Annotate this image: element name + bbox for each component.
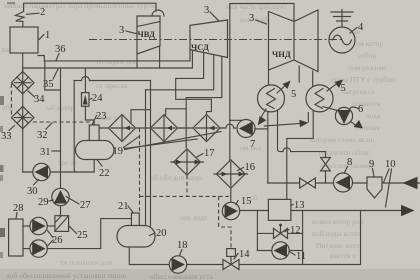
svg-text:28: 28	[13, 203, 24, 214]
heater 5b steam arrow out	[327, 82, 339, 91]
LP heater 19c	[193, 115, 220, 142]
heater 5a drain to header	[278, 110, 284, 151]
feed line through heaters	[22, 53, 24, 172]
drain pump 18	[169, 256, 186, 273]
filter 25	[47, 225, 55, 227]
generator exciter bars	[331, 10, 353, 28]
feedwater heater 34	[11, 72, 34, 94]
make-up water line y=183	[268, 182, 420, 184]
cross water line 5a-5b	[265, 124, 301, 127]
svg-text:27: 27	[80, 200, 91, 211]
svg-text:пй обл доп воды: пй обл доп воды	[150, 173, 202, 182]
svg-text:ном режиме: ном режиме	[348, 63, 387, 72]
drain tank 20	[117, 226, 155, 248]
svg-text:вода: вода	[366, 111, 381, 120]
svg-text:ной воды котло: ной воды котло	[312, 229, 361, 238]
svg-text:ЧСД: ЧСД	[191, 42, 209, 52]
feedwater heater 33	[11, 106, 34, 128]
svg-text:7: 7	[250, 139, 255, 150]
deaerator head 23	[89, 125, 99, 142]
svg-text:2: 2	[40, 7, 45, 18]
HP turbine ЧВД 3	[137, 16, 160, 54]
svg-text:3: 3	[249, 13, 254, 24]
pump 29 riser	[52, 188, 69, 205]
svg-text:33: 33	[1, 131, 12, 142]
condensate main line y=128	[99, 127, 226, 129]
pipe 24 to deaerator head	[85, 106, 94, 125]
boiler 1	[10, 27, 38, 53]
svg-text:12: 12	[290, 225, 301, 236]
svg-text:16: 16	[245, 162, 256, 173]
IP extraction 4 to heater 17 and 19b	[186, 57, 222, 148]
generator 4	[329, 27, 355, 53]
left margin scan marks	[0, 96, 4, 105]
svg-text:11: 11	[296, 251, 306, 262]
dashed drain header	[139, 128, 141, 213]
svg-text:5: 5	[291, 89, 296, 100]
svg-text:36: 36	[55, 44, 66, 55]
reducing valve 24 feed	[84, 68, 86, 93]
valve on make-up line	[300, 178, 316, 188]
extraction line with hop to tank 20	[74, 80, 81, 82]
crossover pipe IP to LP, continuing down to heater 16	[230, 4, 294, 161]
shaft dash-dot line	[89, 39, 342, 41]
heater 5a water arrow	[262, 109, 267, 117]
pump 26b discharge to tank inlet 21	[47, 219, 131, 249]
vertical valve on drain	[325, 152, 327, 158]
condensate pump 26a	[23, 225, 30, 227]
bottom drain line	[187, 264, 223, 266]
svg-text:4: 4	[358, 22, 364, 33]
deaerator tank 22	[76, 141, 115, 160]
svg-text:3: 3	[204, 5, 209, 16]
svg-text:23: 23	[96, 111, 107, 122]
svg-text:ЧНД: ЧНД	[272, 49, 291, 59]
riser 61 to deaerator pump line	[60, 68, 62, 216]
svg-text:20: 20	[156, 228, 167, 239]
reducing valve 24	[82, 93, 90, 107]
svg-text:3: 3	[119, 25, 124, 36]
line 35: exhaust header to heater 34	[23, 50, 193, 71]
svg-text:5: 5	[341, 83, 346, 94]
svg-text:30: 30	[27, 186, 38, 197]
heater 5a drain to make-up line	[267, 112, 269, 183]
network pump 6	[323, 107, 338, 111]
svg-text:21: 21	[118, 201, 129, 212]
svg-text:Питание котл: Питание котл	[316, 241, 359, 250]
dashed drain 32 to deaerator	[33, 122, 89, 125]
pipe hump at HP inlet	[152, 10, 164, 16]
short link from reheat line	[45, 61, 60, 90]
svg-text:22: 22	[99, 168, 110, 179]
svg-text:32: 32	[37, 130, 48, 141]
main make-up line to the right	[291, 210, 402, 212]
svg-text:ние водт: ние водт	[180, 213, 208, 222]
svg-text:15: 15	[241, 196, 252, 207]
IP extraction 2 to heater 19c	[176, 53, 212, 115]
valve 12 branch	[257, 232, 302, 234]
svg-text:31: 31	[40, 147, 51, 158]
svg-text:34: 34	[34, 94, 45, 105]
pump 6 outlet arrow	[351, 122, 357, 126]
svg-text:ти парам доп: ти парам доп	[96, 57, 138, 66]
IP extraction to pump 7	[230, 119, 242, 121]
svg-text:новки котор раб: новки котор раб	[312, 217, 363, 226]
feed pump 30	[33, 163, 50, 180]
svg-text:ти повышен доп: ти повышен доп	[60, 258, 112, 267]
drain header with hop	[283, 148, 291, 152]
network heater 5a	[268, 70, 270, 85]
svg-text:нагрева се: нагрева се	[342, 87, 376, 96]
svg-text:26: 26	[52, 235, 63, 246]
LP turbine ЧНД 3	[269, 10, 319, 72]
svg-text:отбор: отбор	[358, 51, 376, 60]
bottom shading band	[0, 269, 420, 280]
svg-text:подается: подается	[352, 99, 381, 108]
pump 8	[334, 173, 353, 192]
cooler box 13	[268, 199, 291, 220]
heater 17	[174, 149, 201, 175]
funnel 9	[367, 177, 382, 198]
heater 5a steam arrow out	[277, 83, 288, 93]
pump 11 branch	[257, 250, 302, 252]
svg-text:вается в: вается в	[330, 251, 356, 260]
svg-text:ос просхв: ос просхв	[96, 81, 128, 90]
heater 17 drain dashed	[186, 175, 188, 196]
condenser box 28	[9, 219, 23, 256]
condensate pump 7	[237, 120, 255, 138]
main steam line from boiler to HP turbine	[24, 3, 156, 11]
LP heater 19a	[109, 115, 136, 142]
svg-text:17: 17	[204, 148, 215, 159]
heater 5b drain to box 13	[287, 110, 313, 199]
drain tank inlet 21	[131, 213, 139, 227]
recirculation loop verticals	[256, 211, 258, 251]
svg-text:ЧВД: ЧВД	[138, 29, 156, 39]
drain dashed between 34 and 33	[10, 84, 12, 116]
svg-text:25: 25	[77, 230, 88, 241]
pump 15 discharge to box 13	[240, 210, 269, 212]
network heater 5b	[312, 71, 314, 88]
pump 30 suction/discharge line	[23, 171, 95, 173]
heater 16 to pump 15	[230, 188, 232, 202]
control valve 14	[223, 260, 239, 270]
svg-text:ваниых параметрах пара промышл: ваниых параметрах пара промышленные турб…	[4, 1, 155, 10]
svg-text:29: 29	[38, 197, 49, 208]
svg-text:14: 14	[239, 249, 250, 260]
top-left scan mark	[7, 2, 15, 4]
riser 74	[74, 81, 76, 173]
LP heater 19b	[151, 115, 178, 142]
tank 20 outlet to pump 18	[129, 247, 169, 265]
safety valve zigzag 2	[15, 11, 24, 27]
HP exhaust drop (right)	[159, 46, 161, 68]
heater 16	[216, 160, 245, 188]
HP exhaust drop (left)	[136, 54, 138, 68]
bottom line to right riser	[239, 211, 361, 265]
condensate pump 26b	[23, 248, 30, 250]
svg-text:вв: вв	[2, 45, 10, 54]
IP turbine ЧСД 3	[190, 20, 228, 58]
svg-text:гм котор: гм котор	[356, 39, 383, 48]
pump 7 suction	[255, 128, 268, 130]
svg-text:1: 1	[45, 30, 50, 41]
deaerator outlet	[93, 160, 95, 173]
IP extraction 3 to tank lines and 19a	[146, 55, 214, 90]
svg-text:13: 13	[294, 200, 305, 211]
pump 15	[222, 202, 239, 219]
svg-text:6: 6	[358, 104, 363, 115]
line 36: boiler to IP (hot reheat)	[38, 50, 190, 61]
svg-text:24: 24	[92, 93, 103, 104]
svg-text:10: 10	[385, 159, 396, 170]
svg-text:19: 19	[113, 146, 124, 157]
svg-text:котором схема вклю: котором схема вклю	[310, 135, 375, 144]
svg-text:9: 9	[369, 159, 374, 170]
